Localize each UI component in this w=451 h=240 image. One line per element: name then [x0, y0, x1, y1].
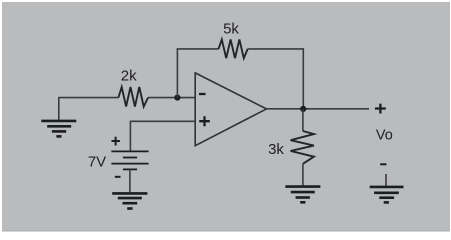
battery 7V: [111, 151, 148, 169]
wire: feedback top left horizontal: [177, 48, 219, 50]
battery 7V plus sign: [112, 137, 120, 146]
label 2k: [121, 68, 137, 85]
wire: down to battery positive: [129, 121, 131, 151]
op-amp inverting pin minus sign: [199, 93, 206, 95]
wire: input from left ground to 2k: [59, 97, 119, 99]
label 5k: [223, 20, 239, 37]
label 7V: [88, 153, 106, 170]
wire: feedback right vertical down to output node: [302, 48, 304, 109]
wire: output node down to 3k: [302, 109, 304, 131]
svg-text:7V: 7V: [88, 153, 106, 170]
resistor 3k: [291, 131, 314, 164]
op-amp non-inverting pin plus sign: [199, 116, 210, 126]
battery minus sign: [115, 176, 121, 178]
wire: feedback left vertical: [176, 49, 178, 98]
svg-text:Vo: Vo: [376, 128, 393, 144]
svg-text:2k: 2k: [121, 68, 137, 85]
wire: reference terminal stub: [385, 174, 387, 186]
label 3k: [268, 141, 284, 158]
ground at output reference: [370, 187, 404, 203]
wire: 2k to op-amp inverting input: [148, 97, 195, 99]
svg-text:3k: 3k: [268, 141, 284, 158]
ground at left input: [41, 121, 76, 136]
wire: battery negative to ground: [129, 169, 131, 192]
label Vo: [376, 128, 393, 144]
wire: non-inverting input horizontal: [130, 120, 195, 122]
ground under battery: [112, 193, 147, 208]
wire: 3k to ground: [302, 164, 304, 186]
node: output junction dot: [300, 106, 306, 112]
wire: op-amp output to right: [267, 108, 370, 110]
wire: feedback top right horizontal: [248, 48, 304, 50]
output plus sign: [375, 104, 386, 114]
output minus sign: [380, 163, 386, 165]
ground under 3k: [285, 187, 320, 203]
resistor 2k: [118, 87, 148, 107]
op-amp: [195, 73, 266, 146]
node: inverting input junction dot: [174, 95, 180, 101]
wire: left input down to ground: [58, 97, 60, 120]
resistor 5k: [219, 40, 248, 59]
svg-text:5k: 5k: [223, 20, 239, 37]
